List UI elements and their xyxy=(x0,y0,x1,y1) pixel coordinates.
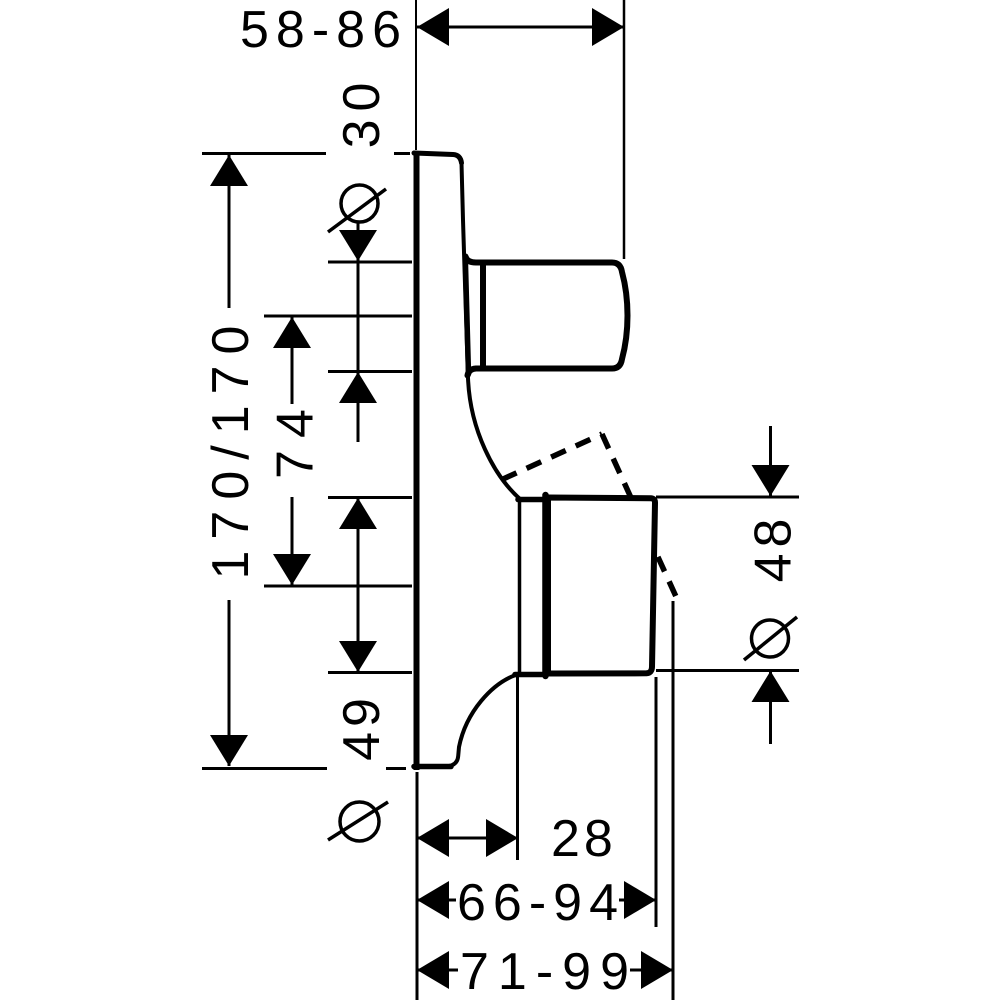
svg-text:30: 30 xyxy=(333,75,391,149)
svg-text:28: 28 xyxy=(551,810,617,868)
svg-text:74: 74 xyxy=(267,397,325,479)
svg-text:66-94: 66-94 xyxy=(457,874,625,932)
svg-text:48: 48 xyxy=(745,513,803,583)
svg-text:71-99: 71-99 xyxy=(460,943,638,1000)
svg-text:170/170: 170/170 xyxy=(202,315,260,580)
svg-text:58-86: 58-86 xyxy=(240,1,408,59)
svg-text:49: 49 xyxy=(333,693,391,761)
